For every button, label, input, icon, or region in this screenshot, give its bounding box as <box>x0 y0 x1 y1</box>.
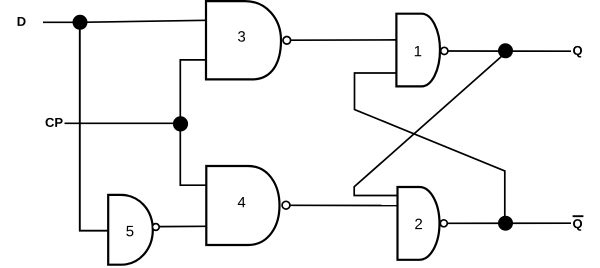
nand gate U5 bubble <box>152 224 159 231</box>
wire D branch down to gate5 input <box>80 22 108 230</box>
nand gate U4 bubble <box>282 201 290 209</box>
wire gate1 feedback from Qbar node <box>355 73 505 223</box>
wire cross feedback Q node to gate2 upper input <box>354 54 504 196</box>
wire CP down to gate4 upper input <box>180 124 206 185</box>
label Qbar overline <box>573 215 584 217</box>
nand gate U4 body <box>206 166 279 245</box>
nand gate U3 bubble <box>283 37 291 45</box>
node D junction <box>73 15 88 30</box>
label gate 1 <box>415 46 421 56</box>
nand gate U3 body <box>206 1 281 79</box>
wire D lead <box>43 21 80 23</box>
node Qbar junction <box>498 216 513 231</box>
wire gate5 output to gate4 lower input <box>159 225 206 227</box>
wire CP up to gate3 lower input <box>180 60 206 123</box>
label CP <box>46 118 63 127</box>
wire gate3 output to gate1 upper input <box>291 39 397 41</box>
wire D to gate3 upper input <box>80 20 206 22</box>
label gate 2 <box>415 219 422 229</box>
nand gate U2 bubble <box>440 220 447 227</box>
nand gate U1 body <box>396 14 440 87</box>
label gate 3 <box>238 31 245 42</box>
wire gate1 output to Q <box>448 50 571 52</box>
node CP junction <box>173 116 188 131</box>
label Q <box>573 46 582 58</box>
wire gate2 output to Qbar <box>447 222 571 224</box>
nand gate U1 bubble <box>441 47 448 54</box>
label D <box>18 17 26 26</box>
label Qbar <box>573 219 582 231</box>
node Q junction <box>498 43 513 58</box>
wire CP lead <box>65 122 181 124</box>
nand gate U2 body <box>398 187 440 260</box>
label gate 4 <box>238 197 246 207</box>
nand gate U5 body <box>108 195 153 265</box>
wire gate4 output to gate2 lower input <box>290 204 398 206</box>
label gate 5 <box>126 226 133 236</box>
